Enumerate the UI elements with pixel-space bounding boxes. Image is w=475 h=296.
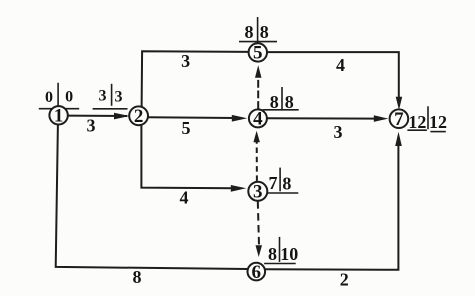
arrowhead into 2 <box>114 113 130 120</box>
wire 2-4 <box>147 116 236 119</box>
node 1 circle <box>49 106 67 124</box>
arrowhead into 7 left <box>374 115 389 122</box>
wire dashed 3-6 <box>258 201 259 245</box>
node 4 circle <box>249 109 267 127</box>
node 3 label 7|8 divider <box>279 168 281 192</box>
svg-text:12: 12 <box>408 112 426 132</box>
node 5 circle <box>249 43 267 61</box>
arrowhead into 5 dashed <box>255 65 262 78</box>
node 6 circle <box>247 263 265 281</box>
svg-text:8: 8 <box>270 92 279 112</box>
svg-text:2: 2 <box>134 106 144 127</box>
svg-text:7: 7 <box>394 109 404 130</box>
wire 1-6 <box>56 124 248 269</box>
wire 2-3 <box>141 125 235 189</box>
svg-text:1: 1 <box>54 106 64 127</box>
svg-text:8: 8 <box>245 22 254 42</box>
svg-text:8: 8 <box>285 92 294 112</box>
wire 5-7 <box>267 52 399 99</box>
node 5 label 8|8 divider <box>257 17 259 44</box>
wire dashed 3-4 <box>256 142 258 181</box>
svg-text:0: 0 <box>45 89 53 106</box>
node 6 label 8|10 divider <box>279 237 281 262</box>
wire 6-7 <box>265 145 398 270</box>
wire dashed 4-5 <box>257 78 259 109</box>
svg-text:8: 8 <box>282 174 291 194</box>
node 7 circle <box>390 109 409 128</box>
svg-text:3: 3 <box>99 88 107 105</box>
svg-text:10: 10 <box>280 244 298 264</box>
node 3 circle <box>248 182 267 201</box>
arrowhead into 7 top <box>396 97 403 110</box>
node 1 label 0|0 underline <box>39 108 79 110</box>
svg-text:4: 4 <box>336 55 345 75</box>
arrowhead into 3 <box>231 185 246 192</box>
svg-text:3: 3 <box>253 182 263 203</box>
arrowhead into 4 <box>232 115 247 122</box>
wire 4-7 <box>267 117 378 119</box>
node 2 circle <box>129 106 148 125</box>
arrowhead into 6 dashed <box>256 245 263 257</box>
node 4 label 8|8 divider <box>281 87 283 110</box>
svg-text:3: 3 <box>115 88 123 105</box>
svg-text:3: 3 <box>87 116 96 136</box>
node 7 label 12|12 underline left <box>407 129 427 131</box>
wire 2-5 <box>142 51 250 108</box>
arrowhead into 7 bottom <box>395 132 402 146</box>
node 6 label 8|10 underline <box>264 263 296 265</box>
arrowhead into 4 dashed <box>253 131 260 142</box>
svg-text:7: 7 <box>269 173 278 193</box>
wire 1-2 <box>68 115 128 117</box>
svg-text:6: 6 <box>252 262 262 283</box>
node 5 label 8|8 underline <box>239 41 277 43</box>
node 2 label 3|3 divider <box>111 84 113 106</box>
node 2 label 3|3 underline <box>93 108 128 110</box>
svg-text:8: 8 <box>260 22 269 42</box>
node 1 label 0|0 divider <box>57 83 59 107</box>
svg-text:4: 4 <box>253 109 263 130</box>
svg-text:8: 8 <box>268 244 277 264</box>
svg-text:0: 0 <box>65 88 73 105</box>
svg-text:3: 3 <box>181 51 190 71</box>
node 7 label 12|12 divider <box>427 106 429 129</box>
svg-text:4: 4 <box>180 187 189 207</box>
svg-text:2: 2 <box>340 270 349 290</box>
svg-text:5: 5 <box>253 43 263 64</box>
node 3 label 7|8 underline <box>268 192 298 194</box>
node 4 label 8|8 underline <box>263 109 299 111</box>
svg-text:8: 8 <box>133 267 142 287</box>
svg-text:12: 12 <box>429 112 447 132</box>
svg-text:3: 3 <box>334 122 343 142</box>
svg-text:5: 5 <box>182 118 191 138</box>
node 7 label 12|12 underline right <box>430 131 445 133</box>
